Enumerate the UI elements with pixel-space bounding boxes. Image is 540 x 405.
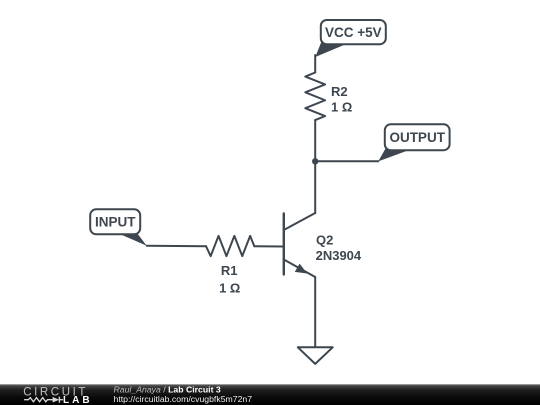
node junction dot (312, 158, 318, 164)
transistor Q2 emitter lead (284, 260, 315, 278)
resistor R2 (305, 73, 325, 121)
wire R1 to base (254, 245, 283, 247)
net label INPUT box (90, 209, 140, 234)
resistor R1 (206, 236, 254, 256)
svg-text:VCC +5V: VCC +5V (325, 25, 382, 40)
svg-text:LAB: LAB (63, 395, 93, 405)
footer bar (0, 384, 540, 405)
net label INPUT tail (117, 233, 147, 246)
svg-text:R1: R1 (221, 263, 238, 278)
svg-text:2N3904: 2N3904 (316, 248, 362, 263)
svg-text:OUTPUT: OUTPUT (389, 130, 445, 145)
svg-text:1 Ω: 1 Ω (219, 281, 240, 296)
transistor Q2 emitter arrow (295, 264, 307, 274)
svg-text:1 Ω: 1 Ω (331, 100, 352, 115)
net label VCC box (321, 20, 386, 44)
svg-text:R2: R2 (331, 84, 348, 99)
transistor Q2 collector lead (284, 213, 315, 230)
wire R2 bottom to node (314, 120, 316, 161)
net label OUTPUT box (385, 124, 450, 150)
logo diode (53, 397, 60, 403)
wire emitter to ground (314, 277, 316, 347)
transistor Q2 base bar (283, 214, 285, 275)
net label VCC tail (315, 42, 347, 58)
svg-text:http://circuitlab.com/cvugbfk5: http://circuitlab.com/cvugbfk5m72n7 (114, 394, 253, 404)
wire node to OUTPUT (315, 160, 378, 162)
ground (298, 347, 333, 364)
svg-text:Raul_Anaya / Lab Circuit 3: Raul_Anaya / Lab Circuit 3 (114, 385, 221, 395)
wire VCC to R2 top (314, 55, 316, 73)
wire node to collector (314, 161, 316, 213)
logo resistor squiggle (24, 398, 52, 402)
wire INPUT to R1 (147, 245, 206, 247)
net label OUTPUT tail (378, 149, 410, 162)
svg-text:INPUT: INPUT (95, 214, 136, 229)
svg-text:Q2: Q2 (316, 232, 333, 247)
